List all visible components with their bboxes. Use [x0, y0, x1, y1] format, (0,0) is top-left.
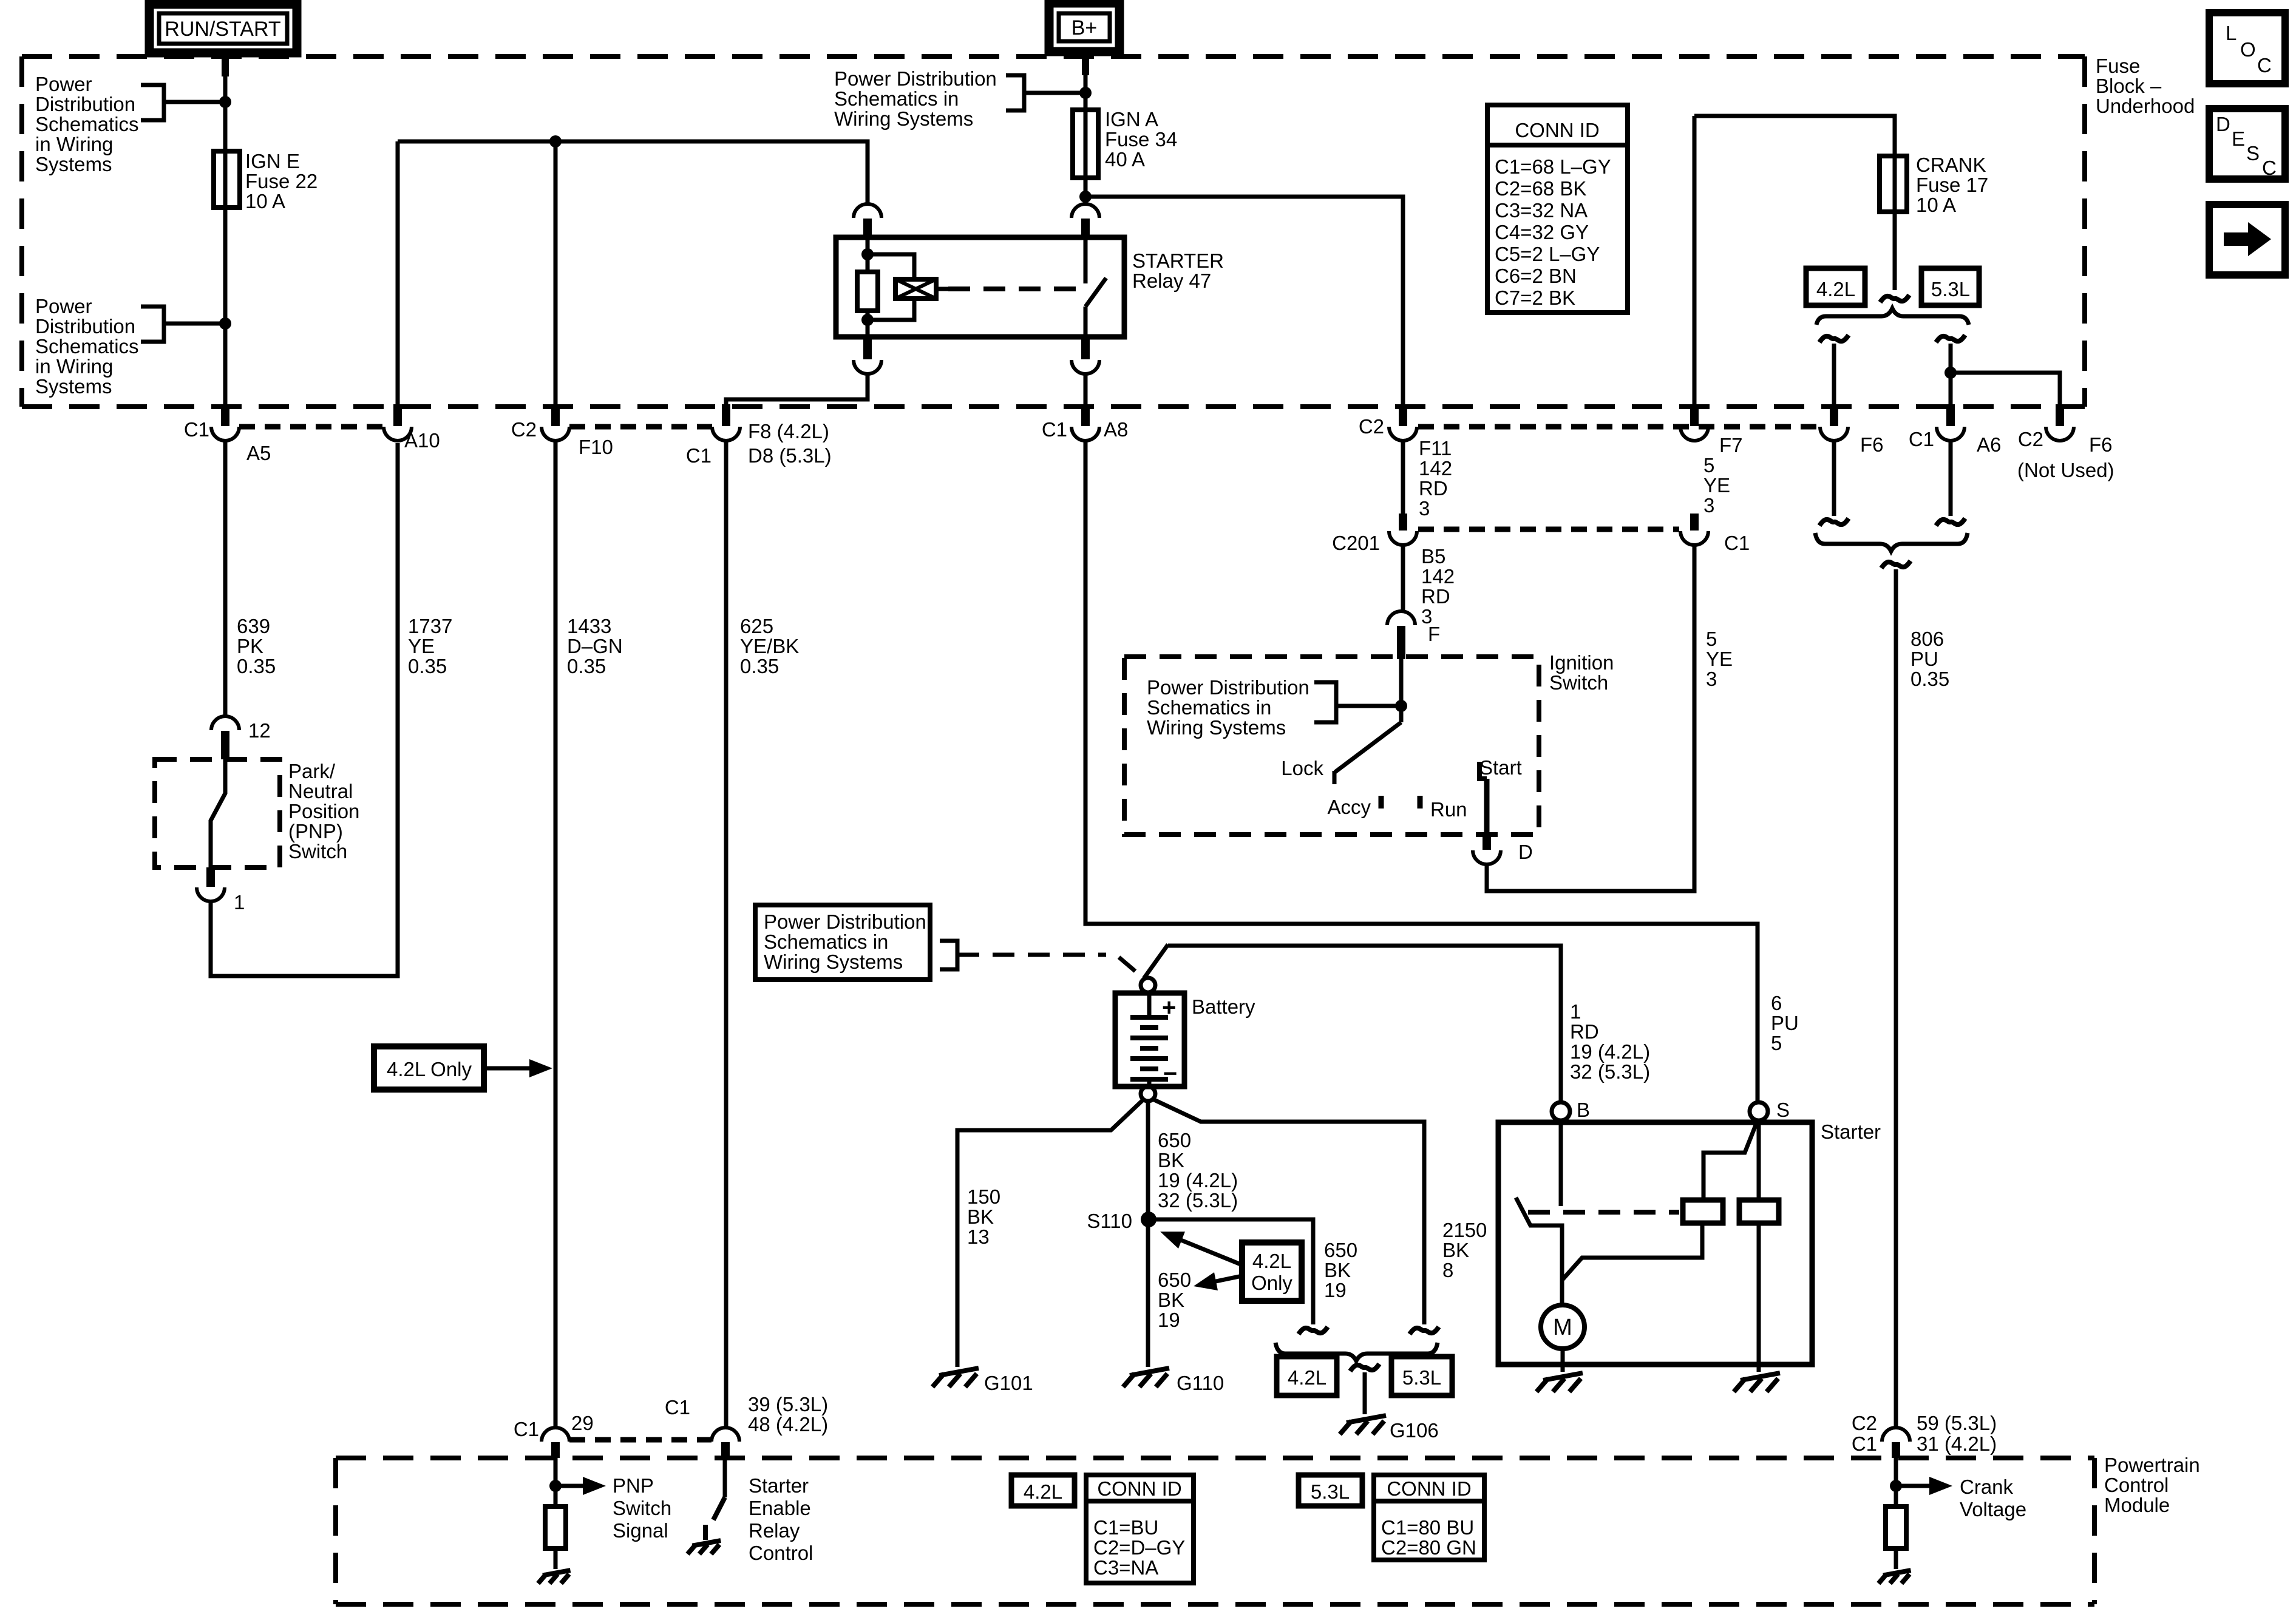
- node DESC box: [2209, 109, 2285, 179]
- battery negative terminal: [1141, 1086, 1155, 1101]
- motor M: [1541, 1305, 1584, 1349]
- node LOC box: [2209, 13, 2285, 84]
- node 4.2L Only callout 2: [1242, 1242, 1302, 1301]
- svg-text:C2=80 GN: C2=80 GN: [1381, 1536, 1476, 1559]
- connector C1 39 48: [712, 1428, 739, 1442]
- connector row dotted line left: [239, 424, 384, 430]
- ground PCM crank internal: [1883, 1570, 1911, 1575]
- svg-text:13: 13: [967, 1225, 990, 1248]
- svg-text:B5: B5: [1421, 545, 1445, 568]
- node junction dot 1: [219, 96, 231, 108]
- svg-text:M: M: [1553, 1315, 1572, 1340]
- svg-text:RUN/START: RUN/START: [165, 18, 280, 41]
- svg-text:F11: F11: [1419, 437, 1452, 459]
- svg-text:G101: G101: [984, 1372, 1033, 1394]
- ground G106: [1347, 1415, 1386, 1423]
- wire F7 up to crank fuse: [1693, 116, 1697, 404]
- svg-text:Distribution: Distribution: [35, 93, 135, 115]
- svg-text:5: 5: [1703, 454, 1714, 476]
- svg-text:Fuse: Fuse: [2096, 55, 2140, 77]
- svg-text:40 A: 40 A: [1105, 148, 1145, 171]
- svg-text:Relay 47: Relay 47: [1132, 269, 1211, 292]
- relay pin top left: [854, 204, 881, 218]
- connector row dotted right: [1418, 424, 1821, 430]
- wire S110 to G106 4.2L branch: [1149, 1219, 1313, 1324]
- svg-text:Battery: Battery: [1192, 995, 1255, 1018]
- connector D: [1483, 835, 1491, 850]
- svg-text:in Wiring: in Wiring: [35, 133, 113, 155]
- connector 12 PNP: [211, 716, 239, 730]
- svg-text:Power: Power: [35, 73, 92, 95]
- svg-text:YE: YE: [1706, 648, 1733, 670]
- relay actuator dashed link: [936, 287, 948, 291]
- svg-text:Signal: Signal: [613, 1519, 668, 1542]
- svg-text:4.2L Only: 4.2L Only: [387, 1058, 472, 1080]
- connector C1 A5: [221, 404, 229, 426]
- svg-text:C4=32 GY: C4=32 GY: [1495, 221, 1589, 243]
- svg-text:PU: PU: [1911, 648, 1938, 670]
- node RUN/START: [149, 4, 297, 53]
- svg-text:C3=NA: C3=NA: [1093, 1556, 1158, 1579]
- svg-text:BK: BK: [967, 1205, 994, 1228]
- table CONN ID underhood: [1487, 105, 1628, 313]
- svg-text:Schematics in: Schematics in: [1147, 696, 1271, 719]
- svg-text:Schematics: Schematics: [35, 335, 139, 358]
- svg-text:Enable: Enable: [749, 1497, 811, 1519]
- svg-text:Park/: Park/: [288, 760, 336, 782]
- svg-text:YE: YE: [408, 635, 435, 657]
- powertrain control module dashed box: [336, 1456, 2094, 1460]
- svg-text:Block –: Block –: [2096, 75, 2162, 97]
- starter mechanical dashed link: [1528, 1210, 1679, 1215]
- node 4.2L tag top: [1806, 268, 1865, 305]
- wire battery to G101: [957, 1099, 1144, 1367]
- wire 639 PK 0.35: [223, 441, 228, 716]
- reference text power distribution battery box: [755, 905, 930, 980]
- svg-text:C1=80 BU: C1=80 BU: [1381, 1516, 1474, 1539]
- ground PCM pnp internal: [543, 1570, 571, 1575]
- node 5.3L tag top: [1921, 268, 1979, 305]
- svg-text:Schematics in: Schematics in: [764, 931, 888, 953]
- svg-text:Fuse 34: Fuse 34: [1105, 128, 1177, 151]
- connector C1 29: [542, 1428, 569, 1442]
- ground starter solenoid: [1741, 1373, 1780, 1380]
- arrow to S110: [1177, 1238, 1242, 1265]
- svg-text:3: 3: [1703, 494, 1714, 517]
- svg-text:3: 3: [1419, 497, 1430, 520]
- brace merge grounds: [1275, 1343, 1438, 1361]
- svg-text:Schematics: Schematics: [35, 113, 139, 135]
- table CONN ID PCM 4.2L: [1086, 1475, 1194, 1583]
- svg-text:A10: A10: [404, 429, 440, 452]
- svg-text:32 (5.3L): 32 (5.3L): [1158, 1189, 1238, 1212]
- connector F7: [1690, 404, 1699, 426]
- svg-text:C1: C1: [1724, 532, 1750, 554]
- svg-text:Starter: Starter: [1821, 1120, 1881, 1143]
- wire F6 down: [1832, 441, 1836, 516]
- wire 4.2L branch to F6: [1819, 335, 1849, 342]
- svg-text:C1: C1: [1909, 428, 1934, 450]
- svg-text:in Wiring: in Wiring: [35, 355, 113, 378]
- svg-text:A8: A8: [1104, 418, 1128, 441]
- wire A6 down: [1949, 441, 1953, 516]
- svg-text:STARTER: STARTER: [1132, 249, 1224, 272]
- svg-text:Switch: Switch: [613, 1497, 671, 1519]
- svg-text:Start: Start: [1479, 756, 1522, 779]
- svg-text:32 (5.3L): 32 (5.3L): [1570, 1060, 1650, 1083]
- svg-text:RD: RD: [1419, 477, 1448, 500]
- svg-text:Wiring Systems: Wiring Systems: [834, 107, 973, 130]
- resistor PCM pnp: [545, 1507, 566, 1548]
- svg-text:PNP: PNP: [613, 1474, 654, 1497]
- svg-text:C1: C1: [184, 418, 209, 441]
- connector C2 F6 not used: [2056, 404, 2064, 426]
- node junction dot 2: [219, 317, 231, 330]
- battery BAT1: [1115, 993, 1184, 1086]
- bracket to wire 3: [1006, 75, 1024, 110]
- starter solenoid contact 2: [1739, 1200, 1779, 1223]
- ground G101: [939, 1368, 979, 1375]
- svg-text:CONN ID: CONN ID: [1515, 119, 1599, 141]
- svg-text:PU: PU: [1771, 1012, 1799, 1034]
- svg-text:19: 19: [1324, 1279, 1347, 1301]
- connector C1 A6: [1946, 404, 1955, 426]
- bracket to ignition wire: [1314, 682, 1336, 722]
- svg-text:Power Distribution: Power Distribution: [834, 67, 997, 90]
- svg-text:C6=2 BN: C6=2 BN: [1495, 265, 1577, 287]
- connector C2 C1 59 31: [1882, 1428, 1910, 1442]
- svg-text:G106: G106: [1390, 1419, 1439, 1442]
- connector 1 PNP: [206, 867, 215, 887]
- relay pin top right: [1072, 204, 1099, 218]
- node 4.2L Only callout box: [374, 1046, 484, 1090]
- svg-text:Fuse 17: Fuse 17: [1916, 174, 1988, 196]
- svg-text:C: C: [2262, 157, 2277, 179]
- starter contact blade: [1516, 1198, 1562, 1280]
- starter solenoid contact 1: [1683, 1200, 1723, 1223]
- wire motor to ground: [1561, 1349, 1565, 1372]
- svg-text:10 A: 10 A: [1916, 194, 1956, 216]
- svg-text:Schematics in: Schematics in: [834, 87, 959, 110]
- PNP switch blade: [211, 759, 225, 867]
- svg-text:CONN ID: CONN ID: [1387, 1477, 1471, 1500]
- svg-text:YE/BK: YE/BK: [740, 635, 799, 657]
- svg-text:C1: C1: [514, 1418, 539, 1440]
- wire F11 to C201: [1401, 441, 1405, 515]
- svg-text:BK: BK: [1442, 1239, 1469, 1261]
- svg-text:Crank: Crank: [1960, 1476, 2014, 1498]
- svg-text:Module: Module: [2104, 1494, 2170, 1516]
- svg-text:Wiring Systems: Wiring Systems: [1147, 716, 1286, 739]
- svg-text:5: 5: [1771, 1032, 1782, 1054]
- connector C2 F11: [1399, 404, 1407, 426]
- svg-text:E: E: [2232, 127, 2245, 150]
- svg-text:Relay: Relay: [749, 1519, 800, 1542]
- svg-text:19 (4.2L): 19 (4.2L): [1158, 1169, 1238, 1192]
- crank voltage input: [1894, 1458, 1898, 1507]
- connector F6: [1830, 404, 1838, 426]
- relay switch: [1084, 237, 1088, 283]
- connector row dotted C201: [1418, 527, 1679, 532]
- starter S wire: [1757, 1120, 1761, 1200]
- svg-text:F6: F6: [2089, 433, 2113, 456]
- svg-text:Voltage: Voltage: [1960, 1498, 2026, 1520]
- wire solenoid to ground: [1757, 1223, 1761, 1372]
- svg-text:Fuse 22: Fuse 22: [245, 170, 318, 192]
- svg-text:10 A: 10 A: [245, 190, 285, 212]
- bracket to wire 2: [141, 307, 164, 342]
- svg-text:Distribution: Distribution: [35, 315, 135, 337]
- svg-text:1: 1: [234, 891, 245, 914]
- svg-text:0.35: 0.35: [740, 655, 779, 677]
- svg-text:S110: S110: [1087, 1210, 1132, 1232]
- svg-text:59 (5.3L): 59 (5.3L): [1917, 1412, 1997, 1434]
- ignition switch dashed box: [1124, 657, 1539, 835]
- svg-text:BK: BK: [1158, 1289, 1184, 1311]
- svg-text:RD: RD: [1570, 1020, 1599, 1043]
- svg-text:4.2L: 4.2L: [1024, 1480, 1062, 1503]
- battery disconnect blade: [1144, 944, 1168, 978]
- svg-text:A6: A6: [1977, 433, 2001, 456]
- ground starter motor: [1543, 1373, 1583, 1380]
- relay pin bottom left: [863, 334, 872, 359]
- svg-text:C1: C1: [686, 444, 712, 467]
- svg-text:39 (5.3L): 39 (5.3L): [748, 1393, 828, 1415]
- svg-text:650: 650: [1158, 1129, 1191, 1151]
- wire B+ to fuse 34: [1084, 52, 1088, 110]
- connector row dotted PCM: [569, 1437, 712, 1443]
- PNP switch dashed box: [155, 759, 280, 867]
- svg-text:Neutral: Neutral: [288, 780, 353, 802]
- svg-text:5.3L: 5.3L: [1311, 1480, 1350, 1503]
- terminal S: [1750, 1102, 1768, 1120]
- svg-text:Position: Position: [288, 800, 359, 822]
- svg-text:C: C: [2257, 54, 2272, 76]
- svg-text:(Not Used): (Not Used): [2017, 459, 2114, 481]
- svg-text:D–GN: D–GN: [567, 635, 623, 657]
- wire battery to G110: [1146, 1100, 1150, 1367]
- connector F ignition switch: [1387, 611, 1415, 625]
- svg-text:Power Distribution: Power Distribution: [1147, 676, 1309, 699]
- svg-text:S: S: [2246, 142, 2260, 164]
- svg-text:Switch: Switch: [1549, 671, 1608, 694]
- node 5.3L tag PCM: [1299, 1475, 1362, 1506]
- svg-text:650: 650: [1324, 1239, 1357, 1261]
- svg-text:Underhood: Underhood: [2096, 95, 2195, 117]
- wire PNP to A10: [211, 443, 398, 976]
- svg-text:5.3L: 5.3L: [1402, 1366, 1441, 1389]
- svg-text:1433: 1433: [567, 615, 611, 637]
- svg-text:F: F: [1428, 623, 1440, 645]
- wire 806 PU 0.35: [1881, 561, 1911, 568]
- svg-text:19: 19: [1158, 1309, 1180, 1331]
- svg-text:150: 150: [967, 1185, 1000, 1208]
- node 4.2L tag bottom: [1277, 1357, 1337, 1395]
- node 5.3L tag bottom: [1391, 1357, 1452, 1395]
- wire A6 to C2 F6 not used: [1951, 373, 2060, 405]
- starter B contact wire: [1559, 1120, 1563, 1206]
- svg-text:Ignition: Ignition: [1549, 651, 1614, 674]
- svg-text:C1: C1: [1042, 418, 1067, 441]
- fuse block - underhood dashed border: [22, 54, 2085, 59]
- ignition start contact: [1479, 762, 1487, 779]
- PNP switch signal input: [554, 1458, 558, 1507]
- connector C201 B5: [1399, 514, 1407, 531]
- svg-text:−: −: [1163, 1060, 1177, 1087]
- fuse F34 IGN A: [1073, 110, 1098, 178]
- svg-text:CRANK: CRANK: [1916, 154, 1986, 176]
- node junction F10 tap: [549, 135, 562, 147]
- svg-text:0.35: 0.35: [1911, 668, 1949, 690]
- svg-text:F6: F6: [1860, 433, 1884, 456]
- svg-text:Powertrain: Powertrain: [2104, 1454, 2200, 1476]
- svg-text:+: +: [1162, 994, 1176, 1021]
- svg-text:Control: Control: [2104, 1474, 2169, 1496]
- brace merge crank: [1815, 533, 1968, 551]
- starter enable relay control switch: [723, 1458, 727, 1497]
- svg-text:19 (4.2L): 19 (4.2L): [1570, 1040, 1650, 1063]
- bracket to wire 1: [141, 85, 164, 120]
- wire to G106: [1350, 1364, 1379, 1371]
- svg-text:C7=2 BK: C7=2 BK: [1495, 286, 1575, 309]
- arrow to 650 label: [1213, 1276, 1242, 1282]
- svg-text:Run: Run: [1430, 798, 1467, 821]
- wire relay to A8 connector: [1084, 374, 1088, 405]
- svg-text:C1=BU: C1=BU: [1093, 1516, 1158, 1539]
- wire 142 RD 3 to ignition F: [1401, 545, 1405, 612]
- svg-text:Switch: Switch: [288, 840, 347, 863]
- svg-text:C2: C2: [1852, 1412, 1877, 1434]
- connector C1 F8 D8: [722, 404, 730, 426]
- starter motor feed: [1562, 1223, 1702, 1280]
- svg-text:Control: Control: [749, 1542, 813, 1564]
- svg-text:142: 142: [1419, 457, 1452, 480]
- svg-text:S: S: [1776, 1099, 1790, 1121]
- svg-text:12: 12: [248, 719, 271, 742]
- table CONN ID PCM 5.3L: [1374, 1475, 1484, 1560]
- svg-text:IGN E: IGN E: [245, 150, 300, 172]
- svg-text:2150: 2150: [1442, 1219, 1487, 1241]
- connector C1 A8: [1081, 404, 1090, 426]
- node junction dot B+: [1079, 87, 1092, 99]
- wire battery positive to starter B: [1168, 946, 1561, 1101]
- terminal B: [1552, 1102, 1570, 1120]
- svg-text:O: O: [2240, 38, 2256, 61]
- svg-text:0.35: 0.35: [237, 655, 276, 677]
- svg-text:C3=32 NA: C3=32 NA: [1495, 199, 1588, 222]
- svg-text:C201: C201: [1332, 532, 1380, 554]
- wire fuse 22 to connector A5: [223, 208, 228, 405]
- svg-text:F8 (4.2L): F8 (4.2L): [748, 420, 829, 442]
- svg-text:IGN A: IGN A: [1105, 108, 1158, 131]
- wire A10 to relay top: [396, 141, 400, 407]
- svg-text:650: 650: [1158, 1269, 1191, 1291]
- svg-text:0.35: 0.35: [408, 655, 447, 677]
- svg-text:CONN ID: CONN ID: [1097, 1477, 1181, 1500]
- svg-text:0.35: 0.35: [567, 655, 606, 677]
- svg-text:3: 3: [1706, 668, 1717, 690]
- svg-text:4.2L: 4.2L: [1288, 1366, 1326, 1389]
- svg-text:(PNP): (PNP): [288, 820, 343, 842]
- svg-text:4.2L: 4.2L: [1816, 278, 1855, 300]
- fuse F17 CRANK: [1880, 156, 1907, 212]
- svg-text:F10: F10: [579, 436, 613, 458]
- svg-text:D8 (5.3L): D8 (5.3L): [748, 444, 832, 467]
- starter assembly box: [1498, 1122, 1812, 1364]
- svg-text:BK: BK: [1324, 1259, 1351, 1281]
- wire 1433 D-GN 0.35 down: [554, 141, 558, 405]
- wire A8 to starter S: [1085, 441, 1758, 1102]
- svg-text:F7: F7: [1719, 434, 1743, 456]
- relay K47 STARTER: [836, 237, 1124, 337]
- svg-text:PK: PK: [237, 635, 263, 657]
- relay coil winding: [868, 254, 914, 279]
- svg-text:29: 29: [571, 1412, 594, 1434]
- svg-text:8: 8: [1442, 1259, 1453, 1281]
- svg-text:RD: RD: [1421, 585, 1450, 608]
- svg-text:1: 1: [1570, 1000, 1581, 1023]
- svg-text:Systems: Systems: [35, 153, 112, 175]
- svg-text:639: 639: [237, 615, 270, 637]
- svg-text:6: 6: [1771, 992, 1782, 1014]
- svg-text:4.2L: 4.2L: [1252, 1250, 1291, 1272]
- svg-text:Starter: Starter: [749, 1474, 809, 1497]
- svg-text:31 (4.2L): 31 (4.2L): [1917, 1432, 1997, 1455]
- svg-text:5.3L: 5.3L: [1931, 278, 1970, 300]
- relay pin bottom right: [1081, 334, 1090, 359]
- svg-text:C2: C2: [2018, 428, 2043, 450]
- battery positive terminal: [1141, 978, 1155, 992]
- node 4.2L tag PCM: [1011, 1475, 1075, 1506]
- node splice S110: [1141, 1212, 1156, 1227]
- starter S lever: [1703, 1124, 1756, 1200]
- svg-text:D: D: [1518, 841, 1533, 863]
- wire 5.3L branch to A6: [1936, 335, 1965, 342]
- svg-text:L: L: [2226, 22, 2237, 44]
- wire battery to G106 5.3L branch: [1152, 1099, 1424, 1324]
- svg-text:806: 806: [1911, 628, 1944, 650]
- svg-text:YE: YE: [1703, 474, 1730, 497]
- svg-text:Power: Power: [35, 295, 92, 317]
- connector A10: [393, 404, 402, 426]
- ground G110: [1130, 1368, 1169, 1375]
- svg-text:Accy: Accy: [1327, 796, 1371, 818]
- svg-text:C5=2 L–GY: C5=2 L–GY: [1495, 243, 1600, 265]
- svg-text:C1: C1: [1852, 1432, 1877, 1455]
- wire 625 YE/BK 0.35: [726, 374, 868, 405]
- svg-text:Only: Only: [1251, 1272, 1292, 1294]
- svg-text:Wiring Systems: Wiring Systems: [764, 951, 903, 973]
- svg-text:C2: C2: [511, 418, 537, 441]
- svg-text:B: B: [1577, 1099, 1590, 1121]
- svg-text:C2=D–GY: C2=D–GY: [1093, 1536, 1185, 1559]
- resistor PCM crank: [1886, 1507, 1906, 1548]
- svg-text:BK: BK: [1158, 1149, 1184, 1171]
- wire D to crank fuse feed: [1487, 545, 1694, 891]
- svg-text:48 (4.2L): 48 (4.2L): [748, 1413, 828, 1436]
- wire crank fuse to split: [1893, 212, 1897, 290]
- wire fuse 34 to relay and F11: [1084, 178, 1088, 205]
- svg-text:Power Distribution: Power Distribution: [764, 910, 926, 933]
- svg-text:D: D: [2216, 113, 2230, 135]
- wire dashed battery feed: [957, 953, 1106, 957]
- svg-text:C1=68 L–GY: C1=68 L–GY: [1495, 155, 1611, 178]
- svg-text:1737: 1737: [408, 615, 452, 637]
- connector C2 F10: [551, 404, 560, 426]
- svg-text:Systems: Systems: [35, 375, 112, 398]
- ignition switch lever: [1399, 657, 1404, 722]
- wire RUN/START to fuse 22: [223, 53, 228, 154]
